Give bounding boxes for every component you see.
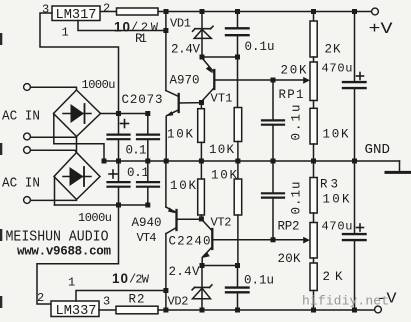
wire AC2 to bridge bottom vertex [31,136,77,138]
svg-text:AC IN: AC IN [2,176,40,192]
bridge rectifier B2 diamond [54,153,100,200]
svg-text:0.1: 0.1 [126,144,147,158]
node A940 base junction [199,216,204,221]
wire bridge2 left vertex drop to raw- bus [54,177,56,206]
svg-text:A970: A970 [170,74,200,88]
op-amp U2 regulator LM337 box [51,301,99,317]
node AC terminal 2 [24,133,31,140]
svg-text:/2W: /2W [129,273,150,287]
wire bottom rail left [99,309,116,311]
svg-text:0.1u: 0.1u [245,40,275,54]
svg-text:C2073: C2073 [122,93,163,107]
wire RP1 wiper arrow [303,77,310,84]
node AC terminal 4 [24,197,31,204]
potentiometer RP1 body [313,57,315,62]
wire LM317 pin1 adj [78,21,166,31]
resistor 2K top [313,12,315,22]
svg-text:hifidiy.net: hifidiy.net [302,294,389,309]
op-amp U1 regulator LM317 box [52,6,100,21]
svg-text:10K: 10K [323,128,349,142]
resistor 10K right column [313,101,315,109]
svg-text:2: 2 [37,291,44,305]
wire AC1 to bridge top [31,87,77,90]
svg-text:10: 10 [112,271,128,286]
wire A940 collector column to bottom rail [165,234,167,311]
svg-text:LM337: LM337 [56,303,97,319]
svg-text:2K: 2K [325,43,341,57]
node pin1 junction dot [163,28,168,33]
svg-text:10: 10 [114,20,130,35]
svg-text:2.4V: 2.4V [171,43,200,57]
node raw- junction dots [116,203,121,208]
node mid-rail junction dots [102,159,358,164]
node VD2 top junction [200,263,205,268]
svg-text:VT2: VT2 [211,216,232,230]
transistor Q1 A970 VT1 [213,70,215,89]
svg-text:GND: GND [365,142,391,158]
wire bridge1 bottom stub [76,137,78,144]
svg-text:VT4: VT4 [137,231,157,245]
svg-text:470u: 470u [322,220,353,234]
wire RP2 wiper arrow [303,237,310,244]
svg-text:0.1u: 0.1u [290,182,304,215]
wire LM337 pin2 input path [37,205,119,304]
capacitor zener VD2 [201,266,203,311]
svg-text:2.4V: 2.4V [169,265,200,279]
svg-text:10K: 10K [323,193,350,207]
resistor 2K bottom [313,258,315,263]
svg-text:www.v9688.com: www.v9688.com [17,245,111,259]
diode inside B1 [63,113,91,115]
capacitor 1000u positive [118,114,120,134]
svg-text:20K: 20K [278,252,301,266]
resistor 10K mid-left bottom [200,161,202,179]
resistor 10K mid-left [200,104,202,109]
bridge rectifier B1 diamond [54,90,101,137]
resistor R3 10K bottom column [313,161,315,178]
svg-text:1000u: 1000u [82,78,116,92]
svg-text:VT1: VT1 [211,92,233,106]
capacitor C 0.1u bottom [237,266,239,287]
node bottom-rail junction dots [163,308,357,313]
node VD1 bottom junction [200,55,205,60]
svg-text:470u: 470u [322,62,353,76]
node top-rail junction dots [164,9,358,14]
capacitor 0.1u hang bottom (rotated label) [272,161,274,192]
wire bridge1 left vertex drop to rail wire [54,114,104,162]
capacitor 0.1u hang (rotated label) [272,80,274,119]
plus sign 1000u negative [109,173,117,175]
node -V terminal [375,306,382,313]
capacitor C 0.1u top [237,12,239,28]
svg-text:20K: 20K [281,64,307,78]
resistor 10K mid-right bottom [237,161,239,179]
node wiper cap junction [271,78,276,83]
node C2073 base junction [199,100,204,105]
resistor R2 [116,306,158,314]
node wiper cap junction bottom [271,237,276,242]
wire C2073 emitter column to rail [165,117,167,162]
svg-text:MEISHUN AUDIO: MEISHUN AUDIO [6,230,109,246]
svg-text:0.1u: 0.1u [290,105,304,141]
wire raw+ bus [101,113,148,115]
wire raw- bus [55,204,148,206]
transistor Q4 C2240 VT2 [211,229,213,249]
node AC terminal 3 [24,147,31,154]
svg-text:3: 3 [42,3,49,17]
wire top rail left segment [100,11,117,13]
svg-text:R1: R1 [135,32,147,46]
svg-text:1000u: 1000u [78,211,112,225]
svg-text:1: 1 [62,26,69,40]
wire AC3 to bridge2 top vertex [31,150,77,152]
svg-text:0.1u: 0.1u [244,274,274,288]
svg-text:LM317: LM317 [56,7,97,23]
svg-text:10K: 10K [170,179,196,193]
wire column x166 lower / A940 emitter feed [165,161,167,207]
capacitor 0.1 negative [147,161,149,181]
transistor Q2 C2073 [178,94,180,112]
svg-text:10K: 10K [209,143,234,157]
svg-text:R2: R2 [129,293,145,307]
wire 0.1u junction down to resistor [237,57,239,108]
wire mid rail GND [104,160,400,162]
transistor Q3 A940 VT4 [175,210,177,230]
svg-text:RP1: RP1 [279,88,304,102]
svg-text:C2240: C2240 [169,235,211,249]
text labels top half [2,2,393,159]
svg-text:2: 2 [103,2,110,16]
wire AC4 to bridge2 bottom vertex [31,199,77,201]
node pin1b junction dot [163,288,168,293]
svg-text:1: 1 [68,276,75,290]
wire top rail [158,11,372,13]
left edge cut marks [0,33,2,308]
wire LM317 pin3 input elbow to bridge+ [40,13,119,114]
svg-text:VD2: VD2 [168,295,189,309]
wire LM337 pin1 adj [76,291,166,302]
node +V terminal [372,8,379,15]
plus sign 470u bottom [357,227,364,229]
capacitor 470u top [354,12,356,81]
capacitor 470u bottom [354,161,356,233]
capacitor 1000u negative [118,161,120,181]
svg-text:0.1: 0.1 [127,166,149,180]
wire VT1 base to RP1 wiper [214,79,306,81]
ground symbol [399,161,401,171]
wire bridge2 top stub [76,144,78,153]
node raw+ junction dots [116,111,121,116]
svg-text:10K: 10K [211,169,237,183]
svg-text:RP2: RP2 [278,220,300,234]
svg-text:VD1: VD1 [170,17,191,31]
plus sign 470u top [357,75,364,77]
wire VD2 junction to cap [202,265,238,267]
wire VD1 column [201,12,203,58]
plus sign 1000u [121,123,129,125]
svg-text:A940: A940 [132,216,162,230]
svg-text:+V: +V [369,20,393,38]
potentiometer RP2 body [313,213,315,223]
capacitor 0.1 positive [147,114,149,134]
wire VD1 to cap 0.1u [202,56,238,58]
node AC terminal 1 [24,84,31,91]
resistor 10K upper-right [234,108,242,142]
resistor R1 [117,8,159,15]
svg-text:AC IN: AC IN [2,109,40,125]
text labels bottom half [2,166,397,319]
wire bottom rail [158,309,375,311]
capacitor zener VD1 symbol [195,28,211,30]
svg-text:3: 3 [103,295,110,309]
diode inside B2 [63,176,91,178]
wire column x166 upper [165,12,167,91]
svg-text:10K: 10K [167,128,193,142]
